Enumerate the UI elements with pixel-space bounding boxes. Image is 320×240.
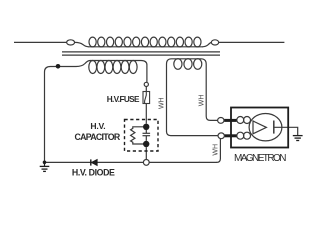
svg-text:H.V.: H.V. <box>90 121 105 131</box>
svg-text:WH: WH <box>212 144 219 156</box>
svg-text:H.V. DIODE: H.V. DIODE <box>72 168 115 178</box>
svg-text:WH: WH <box>159 97 166 109</box>
svg-text:CAPACITOR: CAPACITOR <box>75 132 121 142</box>
svg-text:WH: WH <box>199 95 206 107</box>
svg-text:H.V.FUSE: H.V.FUSE <box>107 95 140 104</box>
svg-text:MAGNETRON: MAGNETRON <box>234 153 287 164</box>
